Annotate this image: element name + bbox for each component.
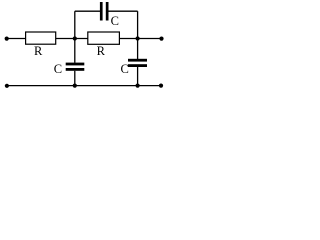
wire R2 to output <box>119 38 161 40</box>
svg-text:C: C <box>111 14 119 28</box>
wire node B down to C3 <box>137 39 139 60</box>
capacitor C2 <box>54 62 85 76</box>
wire R1 to R2 <box>56 38 88 40</box>
svg-text:C: C <box>54 62 62 76</box>
wire top rail right segment <box>109 10 138 12</box>
node T3 output terminal <box>159 37 163 41</box>
svg-text:R: R <box>34 44 43 58</box>
wire top rail left segment <box>75 10 100 12</box>
node C2 bottom junction <box>73 84 77 88</box>
node A junction <box>73 36 77 40</box>
wire right riser top rail to node B <box>137 11 139 38</box>
node T4 bottom-right terminal <box>159 84 163 88</box>
svg-text:R: R <box>97 44 106 58</box>
capacitor C3 <box>121 59 147 76</box>
capacitor C1 top <box>100 2 119 28</box>
svg-text:C: C <box>121 62 129 76</box>
wire left riser node A to top rail <box>74 11 76 38</box>
node B junction <box>136 36 140 40</box>
wire node A down to C2 <box>74 39 76 63</box>
resistor R2 <box>88 32 120 58</box>
wire C2 to bottom rail <box>74 71 76 86</box>
resistor R1 <box>26 32 56 58</box>
node C3 bottom junction <box>136 84 140 88</box>
node T1 input terminal <box>5 37 9 41</box>
wire bottom rail <box>7 85 162 87</box>
wire C3 to bottom rail <box>137 67 139 86</box>
node T2 bottom-left terminal <box>5 84 9 88</box>
wire input left to R1 <box>7 38 26 40</box>
